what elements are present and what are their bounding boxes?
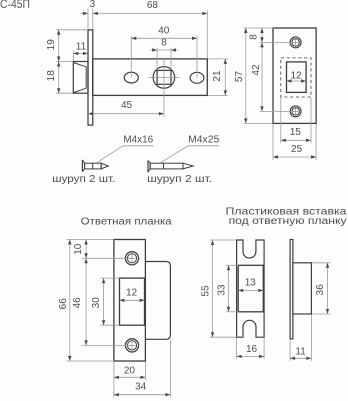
svg-text:34: 34 [135, 382, 147, 393]
dim 8 square width [151, 49, 178, 51]
dim 42 hole spacing [261, 42, 263, 111]
dim 36 side body height [327, 263, 329, 314]
svg-text:40: 40 [158, 26, 170, 37]
svg-text:16: 16 [246, 344, 258, 355]
dim 34 total width [114, 394, 170, 396]
strike bottom hole cross [129, 344, 136, 346]
left oval hole [124, 72, 138, 83]
svg-text:18: 18 [46, 70, 57, 82]
svg-text:30: 30 [91, 297, 102, 309]
top hole cross [293, 41, 299, 43]
faceplate side view [88, 30, 93, 125]
spindle circle [153, 67, 175, 89]
dim 12 strike opening [120, 299, 145, 301]
latch bolt [73, 62, 88, 94]
dim 11 side width [290, 357, 311, 359]
screw 2 tip [183, 163, 193, 169]
dim 33 band height [228, 265, 230, 312]
dim 8 hole offset [261, 28, 263, 42]
bolt bevel [74, 63, 87, 93]
screw 1 thread line [92, 163, 94, 169]
dim 46 hole spacing [85, 258, 87, 345]
strike bottom hole outer [125, 339, 138, 352]
screw 1 shank [85, 163, 102, 169]
bottom screw hole outer [290, 106, 301, 117]
top screw hole inner [292, 39, 299, 46]
svg-text:под ответную планку: под ответную планку [229, 216, 347, 227]
leader M4x25 [161, 146, 220, 163]
svg-text:19: 19 [46, 39, 57, 51]
dim 19 plate-to-bolt [58, 30, 60, 93]
svg-text:33: 33 [216, 284, 227, 296]
svg-text:12: 12 [290, 71, 302, 82]
svg-text:13: 13 [245, 278, 257, 289]
svg-text:11: 11 [76, 41, 87, 52]
svg-text:42: 42 [251, 64, 262, 76]
insert side body [293, 263, 312, 314]
svg-text:57: 57 [234, 71, 245, 83]
dim 12 opening width [287, 80, 307, 82]
svg-text:шуруп 2 шт.: шуруп 2 шт. [147, 174, 212, 185]
svg-text:11: 11 [295, 347, 306, 358]
screw 2 shank [150, 163, 183, 169]
insert middle band [238, 265, 263, 312]
dim 40 hole spacing [131, 37, 197, 39]
dim 25 plate width [273, 156, 316, 158]
dim 45 backset [88, 113, 164, 115]
dim 55 insert height [212, 240, 214, 337]
latch body [93, 59, 208, 96]
bottom screw hole inner [292, 108, 299, 115]
svg-text:25: 25 [291, 144, 303, 155]
insert side flange [290, 240, 293, 339]
leader M4x16 [97, 146, 154, 163]
dim 57 plate height [245, 28, 247, 123]
svg-text:3: 3 [90, 0, 96, 10]
svg-text:С-45П: С-45П [0, 0, 30, 11]
svg-text:8: 8 [161, 38, 167, 49]
spindle square hole [157, 70, 171, 84]
svg-text:66: 66 [58, 298, 69, 310]
dim 10 hole offset [85, 240, 87, 259]
screw 2 M4x25 head [147, 161, 149, 173]
strike bottom hole inner [127, 341, 136, 350]
square latch opening [287, 62, 307, 93]
dim 16 insert width [237, 355, 265, 357]
screw 1 M4x16 head [81, 160, 83, 172]
dim 18 bolt height [57, 62, 60, 67]
svg-text:21: 21 [212, 70, 223, 82]
right oval hole [190, 72, 204, 83]
strike top hole outer [125, 252, 138, 265]
svg-text:М4х16: М4х16 [123, 134, 153, 145]
dim 21 body height [224, 59, 226, 96]
svg-text:68: 68 [147, 0, 159, 11]
dim 30 square height [103, 278, 105, 325]
top screw hole outer [290, 37, 301, 48]
dim 13 band width [238, 289, 263, 291]
dim 11 bolt length [73, 52, 88, 54]
hub horizontal centerline [149, 76, 180, 78]
dim 68 body length [93, 12, 208, 14]
svg-text:12: 12 [126, 288, 138, 299]
svg-text:20: 20 [124, 366, 136, 377]
svg-text:45: 45 [121, 100, 133, 111]
svg-text:М4х25: М4х25 [188, 134, 219, 145]
strike top hole inner [127, 254, 136, 263]
dim 20 plate width [114, 376, 145, 378]
dim 15 insert width [281, 139, 311, 141]
svg-text:55: 55 [201, 285, 212, 297]
svg-text:Ответная планка: Ответная планка [81, 217, 172, 228]
dim 3 faceplate thickness [81, 12, 89, 14]
insert front outline [237, 240, 265, 337]
dashed insert outline [281, 58, 311, 97]
screw 2 thread line [163, 163, 165, 169]
faceplate front view [273, 28, 316, 123]
strike plate tab [145, 262, 170, 340]
strike top hole cross [129, 257, 136, 259]
bottom hole cross [293, 110, 299, 112]
svg-text:10: 10 [73, 243, 84, 255]
svg-text:15: 15 [290, 127, 302, 138]
svg-text:шуруп 2 шт.: шуруп 2 шт. [52, 174, 115, 185]
screw 1 tip [101, 163, 108, 169]
strike plate body [114, 240, 145, 362]
svg-text:8: 8 [248, 34, 259, 40]
strike square hole [120, 278, 145, 325]
svg-text:46: 46 [72, 297, 83, 309]
dim 66 plate height [69, 240, 71, 362]
svg-text:36: 36 [315, 284, 326, 296]
